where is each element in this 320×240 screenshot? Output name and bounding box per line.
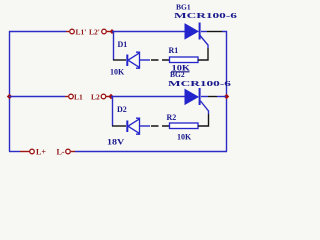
wire right bus lower bbox=[226, 96, 228, 152]
wire terminal stub L1' bbox=[66, 31, 69, 33]
wire D2 anode horizontal (black) bbox=[112, 125, 126, 127]
svg-text:D2: D2 bbox=[117, 105, 127, 114]
wire D1 to R1 blue part bbox=[140, 59, 150, 61]
wire R2 to BG2 gate (black) bbox=[198, 114, 209, 126]
terminal L1' bbox=[70, 29, 75, 34]
svg-text:10K: 10K bbox=[177, 133, 192, 142]
svg-text:BG2: BG2 bbox=[170, 70, 185, 79]
wire drop to D2 branch bbox=[112, 97, 114, 126]
wire terminal stub L2 bbox=[106, 96, 109, 98]
wire D2 to R2 blue part bbox=[140, 125, 150, 127]
wire BG1 gate blue bbox=[200, 36, 208, 49]
svg-text:18V: 18V bbox=[107, 137, 125, 146]
wire top bus left segment bbox=[9, 31, 66, 33]
value 10K (R1) underlined bbox=[171, 64, 191, 73]
terminal L1 bbox=[69, 94, 74, 99]
svg-text:BG1: BG1 bbox=[176, 3, 191, 12]
svg-text:L2: L2 bbox=[91, 93, 100, 102]
junction node right bus bbox=[224, 94, 229, 99]
svg-text:MCR100-6: MCR100-6 bbox=[174, 12, 238, 20]
wire terminal stub L2' bbox=[107, 31, 111, 33]
junction node top bbox=[110, 29, 115, 34]
svg-text:L1': L1' bbox=[76, 28, 87, 37]
svg-text:L2': L2' bbox=[89, 28, 100, 37]
wire R1 to BG1 gate (black) bbox=[198, 48, 208, 60]
wire BG1 cathode to right bus (black) bbox=[201, 31, 207, 33]
wire BG2 cathode to right bus (black) bbox=[201, 96, 208, 98]
wire top bus right segment bbox=[112, 31, 185, 33]
wire D1 anode horizontal (black) bbox=[113, 59, 126, 61]
resistor R2 bbox=[170, 123, 199, 129]
junction node middle bbox=[108, 94, 113, 99]
wire bottom bus right segment bbox=[75, 151, 227, 153]
wire D2 to R2 dashes (black) bbox=[151, 125, 169, 127]
svg-text:MCR100-6: MCR100-6 bbox=[168, 80, 232, 88]
svg-text:L+: L+ bbox=[36, 148, 46, 157]
junction node left bus bbox=[7, 94, 12, 99]
wire terminal stub L- bbox=[71, 151, 75, 153]
wire bottom bus left segment bbox=[9, 151, 20, 153]
thyristor BG2 bbox=[185, 88, 200, 105]
svg-text:R2: R2 bbox=[167, 113, 177, 122]
wire terminal stub L+ bbox=[20, 151, 30, 153]
wire BG2 gate blue bbox=[201, 101, 209, 114]
svg-text:L1: L1 bbox=[74, 93, 83, 102]
diode D1 bbox=[127, 52, 139, 68]
wire D1 to R1 dashes (black) bbox=[151, 59, 169, 61]
wire top right corner bbox=[222, 32, 227, 97]
terminal L- bbox=[66, 149, 71, 154]
terminal L2' bbox=[102, 29, 107, 34]
wire left bus vertical bbox=[9, 31, 11, 152]
svg-text:R1: R1 bbox=[169, 46, 179, 55]
terminal L2 bbox=[101, 94, 106, 99]
terminal L+ bbox=[30, 149, 35, 154]
wire middle bus left segment bbox=[9, 96, 65, 98]
wire drop to D1 branch bbox=[113, 32, 115, 60]
thyristor BG1 bbox=[185, 23, 200, 40]
wire BG2 cathode blue part bbox=[217, 96, 226, 98]
svg-text:L-: L- bbox=[57, 148, 65, 157]
wire middle bus right segment bbox=[111, 96, 185, 98]
svg-text:10K: 10K bbox=[110, 68, 125, 77]
wire terminal stub L1 bbox=[65, 96, 68, 98]
diode D2 bbox=[127, 118, 139, 134]
svg-text:D1: D1 bbox=[118, 40, 128, 49]
resistor R1 bbox=[170, 57, 199, 63]
